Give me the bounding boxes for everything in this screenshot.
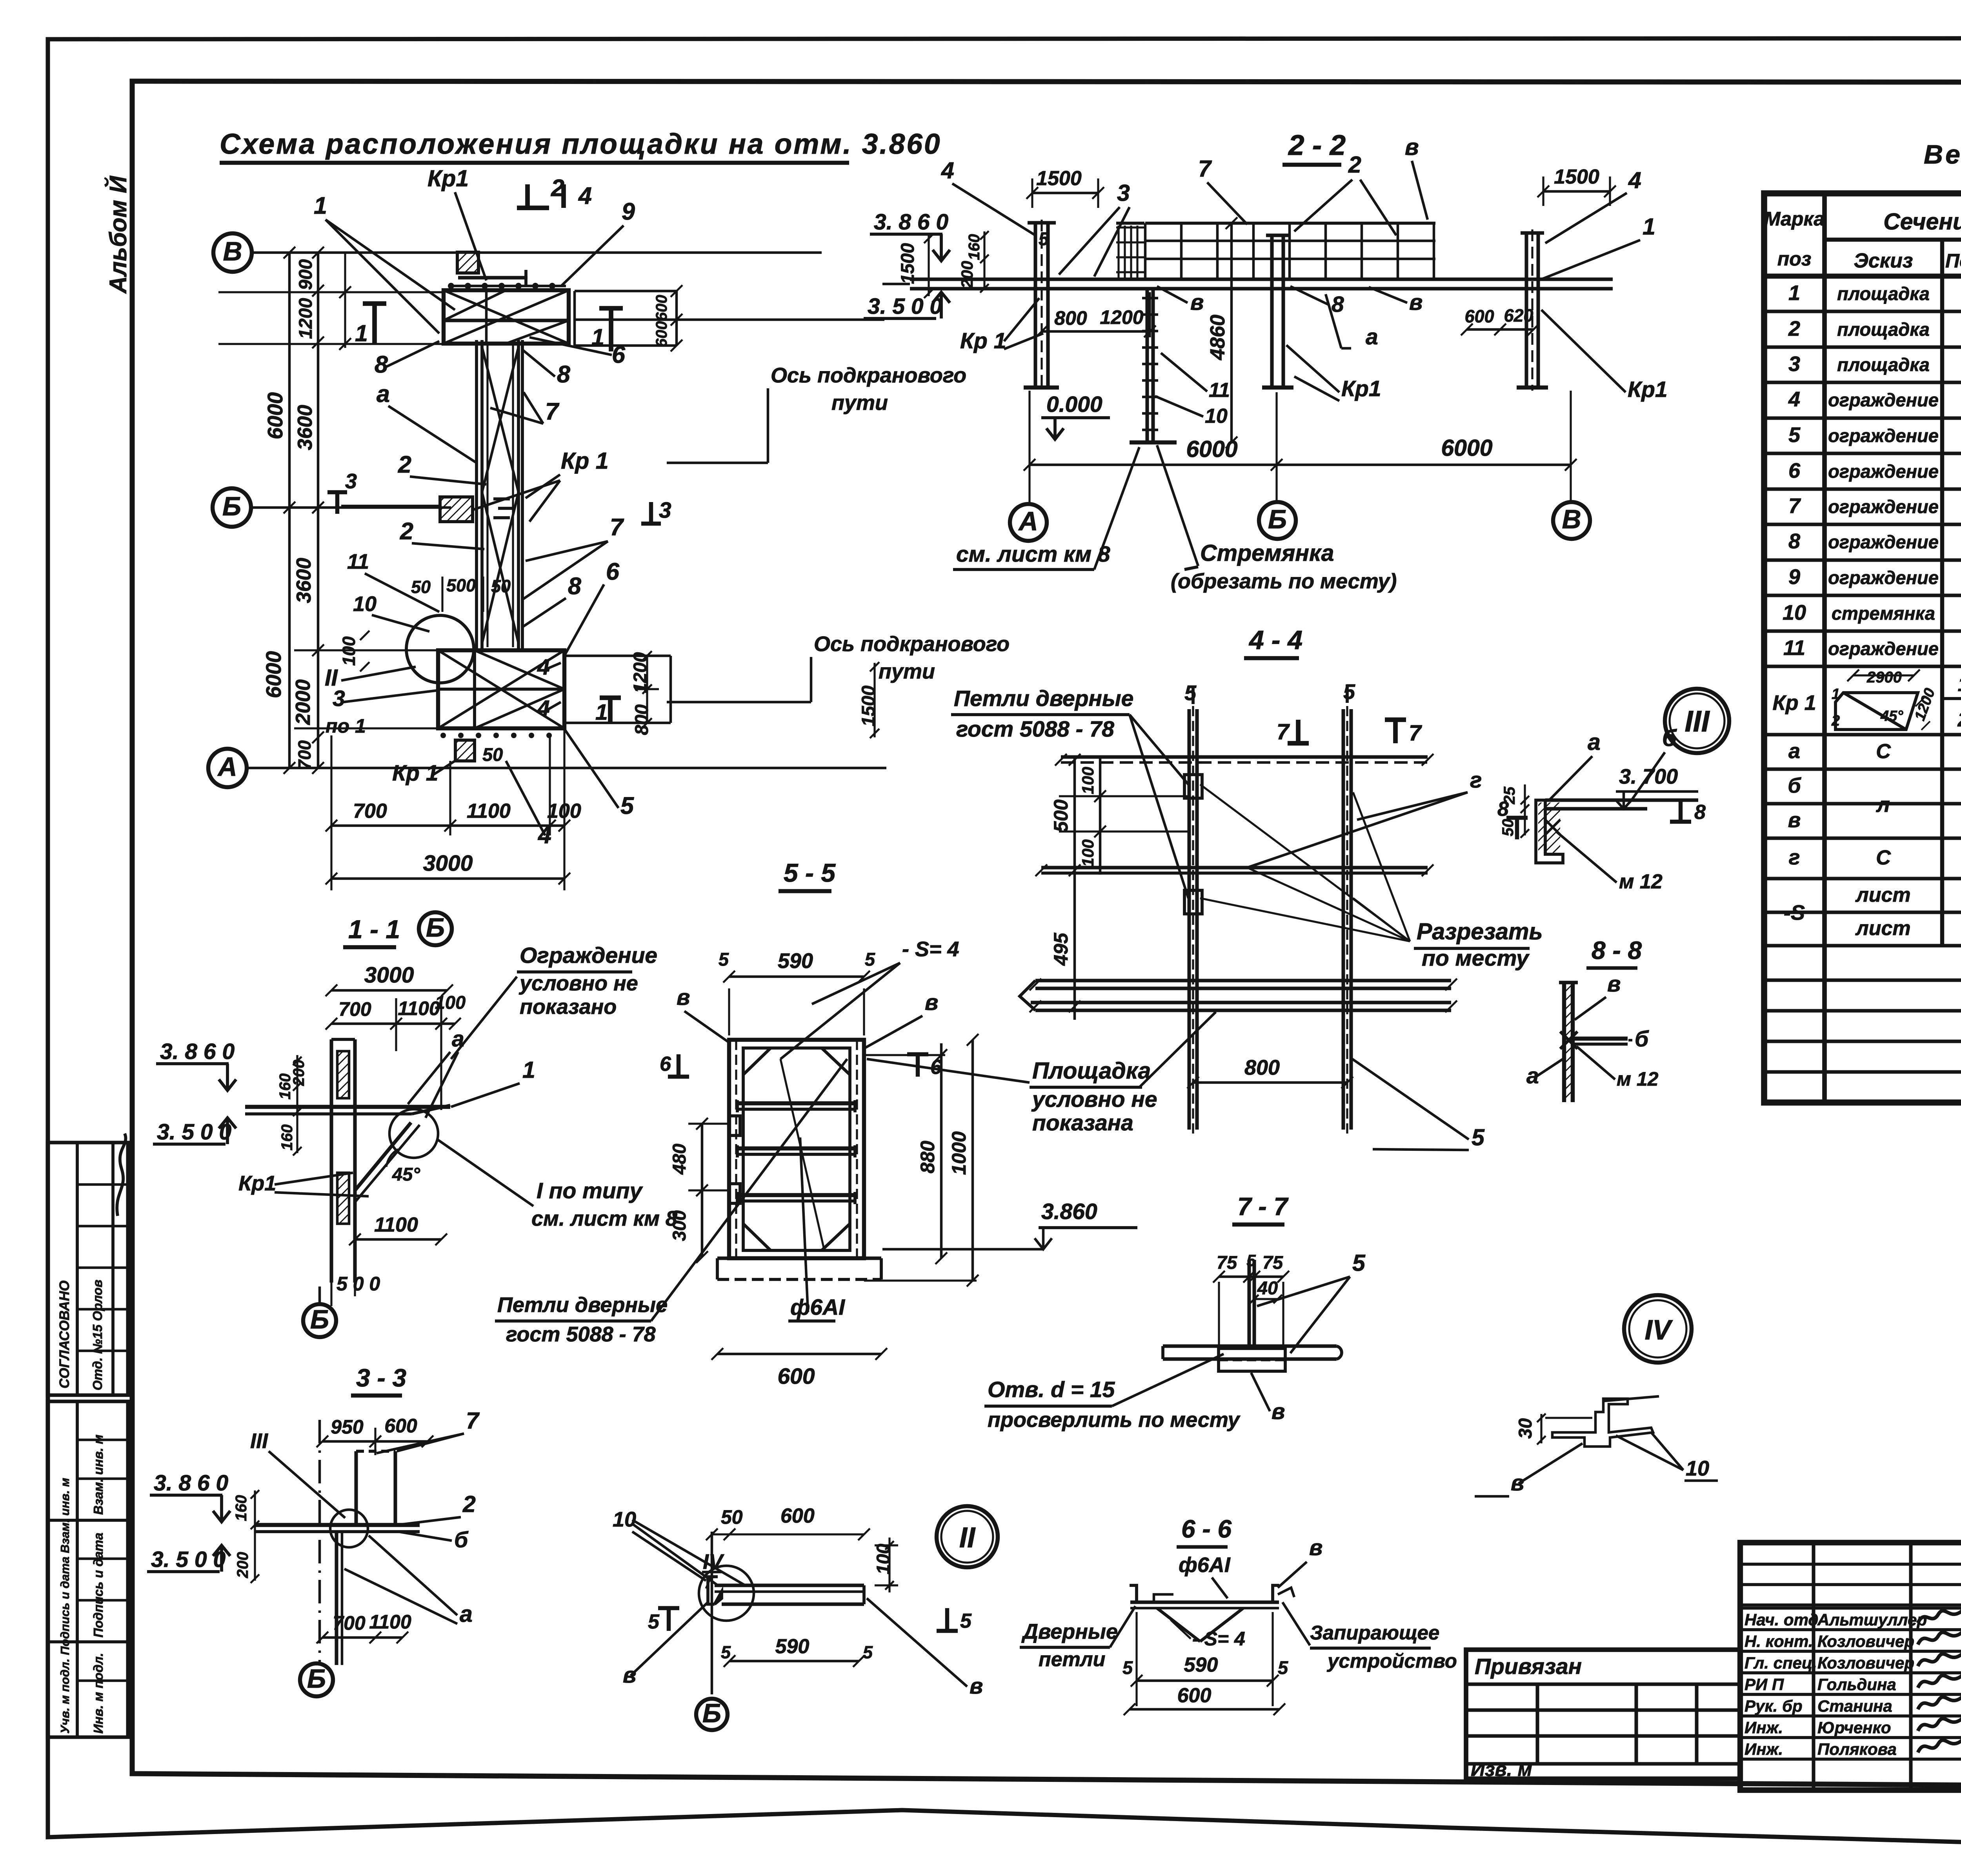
- svg-text:- S= 4: - S= 4: [1192, 1628, 1245, 1650]
- 2-2 dim 1500 left: [1032, 192, 1098, 195]
- svg-text:100: 100: [339, 636, 359, 666]
- plan central column: [475, 340, 478, 650]
- svg-text:25: 25: [1501, 786, 1518, 804]
- svg-text:Отд. №15 Орлов: Отд. №15 Орлов: [90, 1279, 105, 1390]
- svg-text:1: 1: [591, 324, 604, 350]
- svg-text:7 - 7: 7 - 7: [1237, 1192, 1289, 1221]
- svg-text:лист: лист: [1855, 917, 1910, 940]
- view II left angle: [708, 1577, 718, 1604]
- svg-text:Ось подкранового: Ось подкранового: [814, 632, 1010, 656]
- 8-8 bolt: [1560, 1032, 1577, 1049]
- svg-text:1: 1: [355, 320, 368, 346]
- svg-text:10: 10: [353, 592, 377, 616]
- plan bottom dimension 3000: [331, 877, 564, 880]
- svg-text:в: в: [1409, 290, 1423, 315]
- plan top platform: [444, 290, 569, 344]
- 3-3 joint circle: [330, 1510, 368, 1547]
- svg-text:I по типу: I по типу: [537, 1178, 643, 1203]
- svg-text:3: 3: [659, 498, 671, 523]
- 4-4 top rail: [1061, 755, 1428, 759]
- svg-text:480: 480: [669, 1144, 689, 1175]
- svg-text:3. 8 6 0: 3. 8 6 0: [874, 209, 948, 235]
- svg-text:700: 700: [353, 800, 387, 822]
- svg-text:600: 600: [1177, 1684, 1212, 1707]
- svg-text:600: 600: [777, 1364, 815, 1389]
- svg-text:Поз: Поз: [1945, 250, 1961, 272]
- grid line V: [252, 251, 822, 254]
- svg-text:СОГЛАСОВАНО: СОГЛАСОВАНО: [57, 1281, 72, 1388]
- svg-text:РИ П: РИ П: [1745, 1675, 1784, 1694]
- svg-text:л: л: [1876, 793, 1890, 817]
- svg-text:8: 8: [1332, 292, 1344, 317]
- 7-7 dims 75 5 75: [1219, 1276, 1283, 1278]
- svg-text:Кр1: Кр1: [1341, 376, 1381, 401]
- svg-text:2: 2: [400, 518, 413, 544]
- svg-text:условно не: условно не: [1031, 1087, 1157, 1112]
- svg-text:Гольдина: Гольдина: [1817, 1675, 1896, 1694]
- svg-text:ф6АI: ф6АI: [1179, 1553, 1231, 1577]
- svg-text:950: 950: [331, 1416, 364, 1438]
- svg-text:в: в: [677, 985, 690, 1010]
- svg-text:75: 75: [1262, 1252, 1283, 1273]
- svg-text:6000: 6000: [262, 651, 286, 698]
- svg-text:Разрезать: Разрезать: [1417, 919, 1543, 944]
- svg-text:5: 5: [1122, 1657, 1133, 1678]
- svg-text:620: 620: [1504, 306, 1533, 326]
- svg-text:5: 5: [1352, 1250, 1366, 1276]
- svg-text:Б: Б: [307, 1664, 326, 1694]
- svg-text:показано: показано: [520, 995, 617, 1019]
- svg-text:10: 10: [1783, 601, 1806, 624]
- table empty rows: [1764, 978, 1961, 982]
- 6-6 dim 600: [1130, 1708, 1279, 1711]
- svg-text:Б: Б: [222, 491, 241, 521]
- svg-text:2000: 2000: [292, 679, 315, 725]
- svg-text:50: 50: [491, 576, 511, 596]
- svg-text:5 0 0: 5 0 0: [337, 1273, 380, 1295]
- svg-text:50: 50: [482, 744, 503, 765]
- svg-text:м 12: м 12: [1617, 1068, 1659, 1090]
- svg-text:50: 50: [411, 577, 431, 597]
- svg-text:Эскиз: Эскиз: [1854, 249, 1913, 272]
- svg-text:Альбом Й: Альбом Й: [104, 176, 131, 294]
- svg-text:200: 200: [234, 1552, 251, 1579]
- svg-text:1100: 1100: [398, 997, 440, 1019]
- svg-text:Стремянка: Стремянка: [1200, 540, 1334, 566]
- table rows 1-11: [1764, 309, 1961, 313]
- Kp1 sketch parallelogram: [1835, 693, 1918, 730]
- 5-5 frame dashed verticals: [735, 1040, 737, 1258]
- svg-text:ограждение: ограждение: [1828, 496, 1939, 517]
- 6-6 plate: [1130, 1600, 1279, 1604]
- 5-5 section marks 6: [677, 1054, 680, 1077]
- svg-text:2900: 2900: [1866, 669, 1902, 686]
- svg-text:(обрезать по месту): (обрезать по месту): [1171, 570, 1397, 593]
- svg-text:30: 30: [1515, 1418, 1535, 1439]
- svg-text:100: 100: [547, 800, 581, 822]
- svg-text:по 1: по 1: [326, 715, 366, 737]
- svg-text:гост 5088 - 78: гост 5088 - 78: [506, 1323, 656, 1346]
- svg-text:показана: показана: [1032, 1110, 1133, 1135]
- svg-text:3. 5 0 0: 3. 5 0 0: [868, 294, 942, 319]
- svg-text:600: 600: [653, 321, 670, 348]
- svg-text:160: 160: [233, 1495, 250, 1521]
- svg-text:А: А: [1018, 506, 1038, 536]
- view II dim 590: [729, 1660, 859, 1663]
- 5-5 door frame outer: [729, 1040, 864, 1258]
- 2-2 grid circle V: [1553, 502, 1590, 539]
- 3-3 axis line: [318, 1420, 321, 1665]
- grid line B: [251, 506, 451, 509]
- detail IV z-profile: [1552, 1399, 1653, 1447]
- svg-text:3. 700: 3. 700: [1619, 765, 1678, 788]
- svg-text:3: 3: [345, 469, 357, 493]
- svg-text:4: 4: [578, 182, 592, 209]
- svg-text:б: б: [1662, 725, 1677, 751]
- 2-2 platform deck line: [910, 277, 1613, 281]
- svg-text:6000: 6000: [1186, 436, 1237, 462]
- 8-8 horizontal arm: [1573, 1037, 1628, 1041]
- svg-text:600: 600: [780, 1505, 815, 1527]
- svg-text:а: а: [460, 1601, 473, 1627]
- svg-text:площадка: площадка: [1837, 283, 1930, 304]
- svg-text:1100: 1100: [369, 1611, 411, 1633]
- bottom hatched pad: [455, 740, 475, 761]
- svg-text:II: II: [959, 1522, 976, 1554]
- svg-text:50: 50: [1499, 819, 1517, 837]
- svg-text:Н. конт.: Н. конт.: [1745, 1632, 1813, 1650]
- svg-text:Юрченко: Юрченко: [1817, 1718, 1891, 1737]
- view II detail circle: [699, 1566, 754, 1621]
- 3-3 upper column: [354, 1451, 358, 1525]
- svg-text:- S= 4: - S= 4: [902, 937, 959, 961]
- svg-text:Петли дверные: Петли дверные: [497, 1293, 668, 1317]
- plan top platform bolt row: [448, 285, 566, 287]
- svg-text:4: 4: [1628, 167, 1641, 193]
- svg-text:7: 7: [1198, 156, 1212, 182]
- svg-text:1100: 1100: [374, 1214, 418, 1236]
- 2-2 left column: [1033, 223, 1037, 388]
- svg-text:Гл. спец.: Гл. спец.: [1745, 1654, 1817, 1672]
- svg-text:900: 900: [295, 259, 316, 290]
- plan bottom platform bolt row: [440, 733, 446, 738]
- svg-text:Полякова: Полякова: [1817, 1740, 1897, 1758]
- svg-text:ограждение: ограждение: [1828, 425, 1939, 446]
- svg-text:1: 1: [1832, 686, 1840, 702]
- svg-text:Кр1: Кр1: [1628, 377, 1668, 402]
- svg-text:3.860: 3.860: [1041, 1199, 1097, 1224]
- 2-2 railing hatch left segment: [1117, 226, 1119, 278]
- svg-text:6 - 6: 6 - 6: [1181, 1515, 1232, 1543]
- svg-text:600: 600: [384, 1415, 417, 1437]
- svg-text:гост 5088 - 78: гост 5088 - 78: [956, 717, 1114, 742]
- svg-text:ф6АI: ф6АI: [790, 1295, 845, 1320]
- svg-text:б: б: [454, 1527, 469, 1552]
- svg-text:в: в: [970, 1674, 983, 1699]
- left margin stamp block 1: [47, 1143, 128, 1395]
- svg-text:Дверные: Дверные: [1021, 1620, 1118, 1643]
- svg-text:700: 700: [295, 740, 315, 770]
- svg-text:3600: 3600: [294, 405, 317, 450]
- 1-1 grid circle B bottom: [303, 1304, 336, 1337]
- svg-text:8: 8: [1694, 801, 1706, 824]
- plan view grid circle B: [213, 488, 251, 527]
- svg-text:Б: Б: [702, 1698, 721, 1728]
- svg-text:880: 880: [917, 1141, 939, 1174]
- svg-text:10: 10: [1205, 405, 1228, 428]
- detail a/b angle piece: [1545, 798, 1698, 802]
- svg-text:5: 5: [1278, 1657, 1288, 1678]
- svg-text:Изв. м: Изв. м: [1471, 1758, 1532, 1780]
- svg-text:6000: 6000: [264, 392, 287, 439]
- 2-2 guard railing: [1145, 222, 1435, 225]
- svg-text:5: 5: [960, 1610, 972, 1632]
- svg-text:4: 4: [1788, 388, 1800, 411]
- svg-text:Кр 1: Кр 1: [1772, 691, 1816, 715]
- svg-text:1: 1: [1788, 281, 1800, 305]
- 2-2 grid circle A: [1010, 504, 1047, 541]
- svg-text:5: 5: [1184, 681, 1197, 705]
- svg-text:см. лист км 8: см. лист км 8: [531, 1207, 677, 1230]
- svg-text:пути: пути: [831, 391, 888, 415]
- svg-text:11: 11: [1209, 379, 1230, 402]
- svg-text:590: 590: [778, 949, 813, 973]
- 4-4 left dim chain 500 100 100 495: [1073, 757, 1076, 1020]
- svg-text:3000: 3000: [423, 851, 473, 876]
- 5-5 horizontal bars: [737, 1101, 855, 1105]
- svg-text:Запирающее: Запирающее: [1310, 1621, 1439, 1644]
- 5-5 left dims 480 300: [701, 1124, 704, 1257]
- svg-text:7: 7: [545, 398, 560, 425]
- svg-text:Станина: Станина: [1817, 1697, 1892, 1715]
- plan dim extension lines bottom platform: [294, 649, 438, 651]
- svg-text:1200: 1200: [295, 298, 316, 339]
- svg-text:5: 5: [1788, 423, 1801, 447]
- svg-text:ограждение: ограждение: [1828, 638, 1939, 659]
- svg-text:-S: -S: [1784, 901, 1805, 924]
- svg-text:8: 8: [375, 351, 388, 378]
- title block frame: [1740, 1543, 1961, 1790]
- svg-text:3600: 3600: [293, 558, 315, 603]
- svg-text:2: 2: [1831, 713, 1840, 729]
- svg-text:ограждение: ограждение: [1828, 531, 1939, 552]
- svg-text:100: 100: [435, 992, 466, 1013]
- svg-text:500: 500: [446, 575, 476, 595]
- svg-text:5: 5: [865, 949, 875, 970]
- svg-text:А: А: [217, 752, 237, 782]
- 2-2 right column: [1524, 233, 1528, 388]
- svg-text:10: 10: [1686, 1457, 1709, 1480]
- svg-text:100: 100: [1079, 767, 1097, 794]
- 4-4 section marks 7: [1296, 720, 1301, 743]
- svg-text:в: в: [1607, 972, 1621, 997]
- svg-text:4 - 4: 4 - 4: [1248, 625, 1302, 655]
- svg-text:8: 8: [568, 573, 581, 599]
- 2-2 bottom dim 6000 6000: [1030, 464, 1571, 466]
- svg-text:Привязан: Привязан: [1475, 1654, 1582, 1679]
- section mark 1 bottom right: [608, 698, 613, 724]
- svg-text:45°: 45°: [1880, 708, 1903, 724]
- plan pad base bracket: [458, 276, 528, 279]
- mid hatched pad: [440, 497, 473, 522]
- svg-text:Б: Б: [310, 1305, 329, 1334]
- 2-2 dim 4860: [1230, 223, 1233, 442]
- 4-4 right post: [1341, 709, 1345, 1130]
- 1-1 dim 3000: [331, 989, 447, 992]
- left margin stamp block 2: [47, 1401, 128, 1737]
- svg-text:Марка: Марка: [1764, 208, 1825, 230]
- svg-text:III: III: [250, 1429, 268, 1453]
- plan view grid circle A: [208, 749, 247, 787]
- 1-1 wall column: [329, 1039, 333, 1283]
- svg-text:б: б: [1788, 774, 1801, 797]
- svg-text:петли: петли: [1039, 1648, 1105, 1671]
- svg-text:100: 100: [1079, 839, 1097, 867]
- svg-text:Альтшуллер: Альтшуллер: [1817, 1610, 1927, 1629]
- svg-text:в: в: [1405, 134, 1419, 160]
- svg-text:4: 4: [941, 158, 954, 184]
- section mark 2 top: [525, 184, 530, 208]
- 2-2 dim 800 1200: [1042, 330, 1150, 333]
- svg-text:5: 5: [648, 1610, 660, 1633]
- svg-text:Схема расположения площадки: Схема расположения площадки на отм. 3.86…: [220, 128, 942, 160]
- svg-text:6: 6: [612, 341, 626, 368]
- svg-text:40: 40: [1257, 1277, 1278, 1298]
- column cross bracing: [482, 347, 518, 492]
- privyazan table: [1466, 1650, 1740, 1779]
- svg-text:45°: 45°: [392, 1164, 420, 1185]
- table row Kp1: [1764, 733, 1961, 736]
- svg-text:Ведомость: Ведомость: [1924, 140, 1961, 169]
- svg-text:200: 200: [290, 1060, 307, 1086]
- svg-text:В: В: [1562, 504, 1581, 534]
- svg-text:1 - 1: 1 - 1: [348, 915, 400, 944]
- svg-text:1200: 1200: [1100, 306, 1143, 328]
- svg-text:в: в: [1272, 1399, 1285, 1424]
- 5-5 right dims 880 1000: [940, 1043, 943, 1258]
- svg-text:11: 11: [347, 550, 369, 573]
- 5-5 base plate: [717, 1256, 881, 1260]
- view II channel: [715, 1583, 864, 1587]
- 2-2 ladder stremyanka: [1145, 289, 1149, 441]
- 7-7 horizontal bar: [1163, 1344, 1337, 1348]
- svg-text:Кр1: Кр1: [238, 1172, 276, 1195]
- 4-4 bottom rails: [1035, 979, 1451, 982]
- svg-text:800: 800: [1054, 307, 1087, 329]
- svg-text:а: а: [1366, 324, 1378, 349]
- svg-text:Рук. бр: Рук. бр: [1745, 1697, 1803, 1715]
- detail circle II on plan: [406, 615, 474, 683]
- svg-text:IV: IV: [1644, 1315, 1673, 1346]
- svg-text:590: 590: [1184, 1654, 1218, 1676]
- svg-text:1100: 1100: [467, 800, 511, 822]
- plan top platform right opening: [575, 290, 677, 293]
- 2-2 grid circle B: [1259, 502, 1296, 539]
- 5-5 bottom dim 600: [717, 1353, 881, 1356]
- svg-text:г: г: [1470, 768, 1482, 793]
- svg-text:стремянка: стремянка: [1832, 603, 1935, 624]
- section mark 1-1 left: [363, 301, 386, 306]
- svg-text:см. лист км 8: см. лист км 8: [956, 542, 1110, 567]
- svg-text:7: 7: [1409, 721, 1422, 746]
- svg-text:1: 1: [314, 192, 327, 219]
- 3-3 grid circle B: [300, 1663, 333, 1696]
- svg-text:Кр1: Кр1: [427, 166, 469, 191]
- svg-text:3. 8 6 0: 3. 8 6 0: [160, 1039, 235, 1064]
- svg-text:8: 8: [557, 361, 570, 388]
- svg-text:Козловичер: Козловичер: [1817, 1632, 1914, 1650]
- svg-text:по месту: по месту: [1422, 946, 1530, 971]
- svg-text:495: 495: [1050, 932, 1072, 966]
- view II section marks 5: [667, 1608, 671, 1631]
- svg-text:а: а: [452, 1026, 464, 1052]
- svg-text:4860: 4860: [1206, 315, 1229, 360]
- 1-1 brace detail circle: [389, 1109, 438, 1158]
- B axis section mark 3: [335, 492, 339, 514]
- plan column hatched pad top: [457, 252, 478, 273]
- svg-text:5: 5: [721, 1642, 731, 1662]
- svg-text:2 - 2: 2 - 2: [1288, 129, 1346, 161]
- detail circle II symbol: [937, 1506, 998, 1567]
- svg-text:Ось подкранового: Ось подкранового: [771, 364, 966, 387]
- 6-6 dims 5 590 5: [1137, 1679, 1273, 1682]
- svg-text:Козловичер: Козловичер: [1817, 1654, 1914, 1672]
- svg-text:500: 500: [1050, 799, 1072, 832]
- svg-text:Взам. инв. м: Взам. инв. м: [91, 1434, 106, 1515]
- svg-text:г: г: [1789, 846, 1800, 869]
- svg-text:IV: IV: [703, 1550, 724, 1574]
- svg-text:3: 3: [1117, 180, 1130, 206]
- svg-text:800: 800: [631, 704, 652, 735]
- svg-text:6: 6: [660, 1053, 671, 1075]
- svg-text:5: 5: [863, 1642, 873, 1662]
- svg-text:3 - 3: 3 - 3: [356, 1364, 406, 1392]
- svg-text:1: 1: [1643, 214, 1655, 240]
- svg-text:2: 2: [1957, 708, 1961, 731]
- 4-4 ploshchadka leader: [1139, 1012, 1216, 1087]
- 4-4 mid rail: [1041, 866, 1428, 869]
- svg-text:600: 600: [1464, 306, 1494, 326]
- svg-text:Кр 1: Кр 1: [392, 761, 438, 786]
- svg-text:8: 8: [1788, 530, 1800, 553]
- plan bottom dimension 700 1100 100: [330, 735, 332, 890]
- svg-text:Инв. м подл.: Инв. м подл.: [91, 1653, 106, 1734]
- plan bottom platform: [438, 650, 564, 728]
- svg-text:50: 50: [721, 1506, 743, 1528]
- svg-text:1500: 1500: [1036, 167, 1082, 190]
- svg-text:в: в: [1309, 1535, 1322, 1560]
- svg-text:Площадка: Площадка: [1032, 1058, 1151, 1084]
- svg-text:Нач. отд: Нач. отд: [1745, 1610, 1818, 1629]
- svg-text:75: 75: [1217, 1252, 1237, 1273]
- svg-text:а: а: [1588, 729, 1601, 755]
- section mark 1-1 right: [599, 306, 623, 311]
- svg-text:а: а: [1788, 739, 1800, 763]
- detail bolt cross: [1545, 820, 1560, 835]
- svg-text:5: 5: [1039, 228, 1049, 249]
- svg-text:площадка: площадка: [1837, 319, 1930, 340]
- svg-text:б: б: [1635, 1026, 1649, 1052]
- 8-8 vertical member: [1562, 983, 1566, 1102]
- svg-text:700: 700: [338, 998, 371, 1020]
- svg-text:0.000: 0.000: [1046, 392, 1102, 417]
- svg-text:800: 800: [1244, 1056, 1280, 1079]
- svg-text:лист: лист: [1855, 884, 1910, 906]
- svg-text:7: 7: [1277, 719, 1290, 744]
- 7-7 plate: [1219, 1348, 1285, 1371]
- svg-text:9: 9: [622, 198, 635, 225]
- svg-text:условно не: условно не: [518, 972, 638, 995]
